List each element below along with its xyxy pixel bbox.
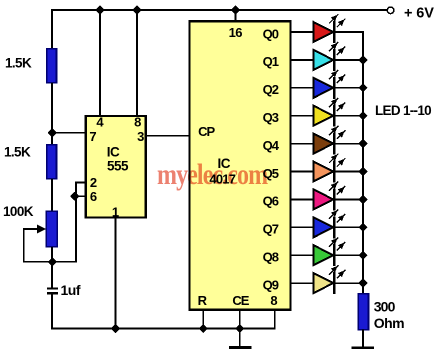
ground: below 300 Ohm <box>352 346 374 349</box>
resistor R4 300 Ohm <box>358 294 368 330</box>
LED D1 cathode bar <box>333 21 335 43</box>
LED D8 cathode bar <box>333 216 335 238</box>
wire: 300 Ohm to ground <box>362 330 364 347</box>
wire: 4017 CE pin to bottom rail <box>239 310 241 329</box>
LED D10 cathode bar <box>333 272 335 294</box>
resistor R1 1.5K <box>47 49 57 83</box>
svg-text:IC: IC <box>217 156 230 171</box>
svg-text:LED 1--10: LED 1--10 <box>375 103 431 118</box>
LED D4 yellow triangle <box>314 106 334 126</box>
wire: pin2-pin6 vertical link <box>75 182 77 197</box>
wire: LED4 cathode to bus <box>334 115 364 117</box>
watermark: myelec.com <box>157 157 268 190</box>
svg-text:Q9: Q9 <box>263 277 279 292</box>
wire: Q8 output to LED9 anode <box>291 254 314 256</box>
wire: 4017 R pin to bottom rail <box>202 310 204 329</box>
wire: wiper bracket to bottom of pot <box>23 261 53 263</box>
LED D9 emission arrows <box>329 237 338 246</box>
node: junction pin16 wire / rail <box>232 6 240 14</box>
node: junction wiper / pot bottom / 555 pins 2,6 <box>48 258 56 266</box>
LED D9 green triangle <box>314 245 334 265</box>
wire: Q2 output to LED3 anode <box>291 87 314 89</box>
svg-text:Q7: Q7 <box>263 222 279 237</box>
node: junction LED9 cathode / bus <box>359 251 367 259</box>
potentiometer R3 100K body <box>46 211 57 247</box>
node: junction pin4 wire / rail <box>96 6 104 14</box>
wire: cathode bus down right side <box>362 32 364 294</box>
node: junction LED10 cathode / bus <box>359 279 367 287</box>
LED D6 orange triangle <box>314 162 334 182</box>
wire: Q6 output to LED7 anode <box>291 198 314 200</box>
wire: LED6 cathode to bus <box>334 171 364 173</box>
wire: LED3 cathode to bus <box>334 87 364 89</box>
wire: left column from rail to R1 <box>51 9 53 50</box>
LED D5 cathode bar <box>333 133 335 155</box>
node: junction LED6 cathode / bus <box>359 168 367 176</box>
svg-text:Ohm: Ohm <box>374 315 404 331</box>
wire: Q3 output to LED4 anode <box>291 115 314 117</box>
svg-text:+ 6V: + 6V <box>404 5 434 21</box>
wire: 4017 pin 16 to rail <box>235 10 237 21</box>
node: junction 4017 CE pin / bottom rail / ground <box>236 325 244 333</box>
wire: horizontal to wiper junction <box>52 261 77 263</box>
LED D6 emission arrows <box>329 154 338 163</box>
svg-text:R: R <box>198 293 208 308</box>
wire: LED2 cathode to bus <box>334 59 364 61</box>
wiper arrow of potentiometer <box>24 228 40 230</box>
LED D1 emission arrows <box>329 14 338 23</box>
svg-text:100K: 100K <box>3 204 34 219</box>
svg-text:Q4: Q4 <box>263 138 280 153</box>
wire: pot bottom to capacitor <box>51 247 53 287</box>
node: junction LED7 cathode / bus <box>359 196 367 204</box>
LED D2 cyan triangle <box>314 50 334 70</box>
node: junction LED2 cathode / bus <box>359 56 367 64</box>
svg-text:300: 300 <box>374 299 396 315</box>
svg-text:8: 8 <box>270 293 277 308</box>
svg-text:1uf: 1uf <box>61 282 81 298</box>
LED D4 cathode bar <box>333 105 335 127</box>
svg-text:3: 3 <box>137 129 144 144</box>
svg-text:Q1: Q1 <box>263 54 279 69</box>
svg-text:Q6: Q6 <box>263 194 279 209</box>
resistor R2 1.5K <box>47 145 57 179</box>
svg-text:4: 4 <box>96 114 104 129</box>
op-amp/timer U1 IC 555 body <box>86 116 146 218</box>
LED D3 blue triangle <box>314 78 334 98</box>
wire: LED5 cathode to bus <box>334 143 364 145</box>
node: junction 555 pin1 / bottom rail <box>112 325 120 333</box>
wire: 555 pin 2 stub <box>76 181 86 183</box>
LED D8 blue2 triangle <box>314 217 334 237</box>
wire: LED8 cathode to bus <box>334 226 364 228</box>
wire: Q5 output to LED6 anode <box>291 171 314 173</box>
LED D2 emission arrows <box>329 42 338 51</box>
svg-text:Q0: Q0 <box>263 26 279 41</box>
wire: Q1 output to LED2 anode <box>291 59 314 61</box>
capacitor C1 1uf bottom plate <box>47 292 58 294</box>
node: junction LED8 cathode / bus <box>359 223 367 231</box>
node: junction pin7 / left column <box>48 129 56 137</box>
wire: 555 pin 4 to rail <box>99 10 101 116</box>
wire: wiper down leg <box>23 228 25 262</box>
node: junction LED5 cathode / bus <box>359 140 367 148</box>
wire: LED1 cathode to bus <box>334 31 364 33</box>
LED D8 emission arrows <box>329 210 338 219</box>
LED D6 cathode bar <box>333 161 335 183</box>
wire: LED10 cathode to bus <box>334 282 364 284</box>
wire: R2 to potentiometer <box>51 179 53 212</box>
node: junction LED3 cathode / bus <box>359 84 367 92</box>
node: junction pins 2-6 <box>71 192 79 200</box>
svg-text:16: 16 <box>229 25 243 40</box>
svg-text:CP: CP <box>198 124 215 139</box>
svg-text:Q5: Q5 <box>263 166 279 181</box>
LED D4 emission arrows <box>329 98 338 107</box>
wire: Q9 output to LED10 anode <box>291 282 314 284</box>
svg-text:1.5K: 1.5K <box>4 145 31 160</box>
wire: 555 pin 7 to left column <box>52 132 86 134</box>
svg-text:Q8: Q8 <box>263 250 279 265</box>
wire: Q4 output to LED5 anode <box>291 143 314 145</box>
svg-text:2: 2 <box>90 175 97 190</box>
wire: Q7 output to LED8 anode <box>291 226 314 228</box>
counter U2 IC 4017 body <box>190 21 291 310</box>
wire: +6V top supply rail <box>51 9 387 11</box>
LED D10 emission arrows <box>329 265 338 274</box>
LED D10 khaki triangle <box>314 273 334 293</box>
svg-text:555: 555 <box>107 158 129 173</box>
svg-text:CE: CE <box>232 293 249 308</box>
wire: R1 to R2 <box>51 83 53 146</box>
ground: below CE <box>239 329 241 347</box>
wire: capacitor to bottom rail <box>51 295 53 330</box>
wire: pins 2,6 down to wiper junction <box>75 196 77 262</box>
node: junction 4017 R pin / bottom rail <box>199 325 207 333</box>
svg-text:1.5K: 1.5K <box>5 55 32 70</box>
LED D2 cathode bar <box>333 49 335 71</box>
svg-text:IC: IC <box>107 144 120 159</box>
LED D3 emission arrows <box>329 70 338 79</box>
svg-text:6: 6 <box>90 189 97 204</box>
LED D3 cathode bar <box>333 77 335 99</box>
node: junction pin8 wire / rail <box>133 6 141 14</box>
wire: 555 pin 6 stub <box>75 195 86 197</box>
wire: 555 pin 3 to 4017 CP <box>146 135 190 137</box>
svg-text:4017: 4017 <box>209 172 235 187</box>
wire: 555 pin 1 to bottom rail <box>114 217 116 329</box>
capacitor C1 1uf top plate <box>47 287 58 289</box>
wire: LED9 cathode to bus <box>334 254 364 256</box>
LED D7 cathode bar <box>333 188 335 210</box>
svg-text:Q3: Q3 <box>263 110 279 125</box>
svg-text:Q2: Q2 <box>263 82 279 97</box>
LED D5 brown triangle <box>314 134 334 154</box>
LED D7 emission arrows <box>329 182 338 191</box>
svg-text:8: 8 <box>134 114 141 129</box>
wire: bottom ground rail <box>52 328 275 330</box>
wire: 555 pin 8 to rail <box>136 10 138 116</box>
LED D7 pink triangle <box>314 189 334 209</box>
wire: LED7 cathode to bus <box>334 198 364 200</box>
svg-text:7: 7 <box>89 129 96 144</box>
terminal: +6V supply point <box>387 7 394 14</box>
LED D5 emission arrows <box>329 126 338 135</box>
wire: 4017 pin 8 down and left to rail <box>274 310 276 330</box>
LED D1 red triangle <box>314 22 334 42</box>
LED D9 cathode bar <box>333 244 335 266</box>
wire: Q0 output to LED1 anode <box>291 31 314 33</box>
node: junction LED4 cathode / bus <box>359 112 367 120</box>
